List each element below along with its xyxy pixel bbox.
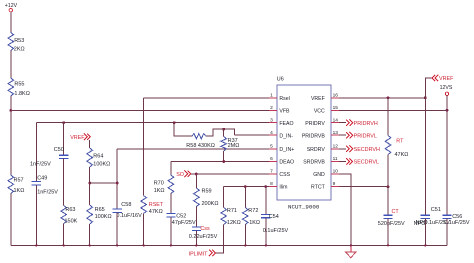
svg-text:CSS: CSS [279,172,290,178]
wire [143,98,145,196]
svg-text:7: 7 [270,169,273,175]
resistor R70 [168,175,174,194]
svg-text:VCC: VCC [314,109,325,115]
wire to IPLIMIT [215,225,223,253]
capacitor C54 [261,213,270,215]
svg-text:SRDRV: SRDRV [307,147,326,153]
wire [35,185,37,245]
wire pin10 GND [339,174,351,245]
svg-text:VREF: VREF [439,76,454,82]
svg-text:R58 430KΩ: R58 430KΩ [186,143,215,149]
svg-text:12: 12 [333,143,339,149]
node [62,121,65,124]
capacitor CT [383,214,392,216]
pin 9 RTCT [331,186,339,188]
svg-text:100KΩ: 100KΩ [93,162,110,168]
wire [170,162,172,176]
svg-text:5: 5 [270,143,273,149]
svg-text:0.1uF/25V: 0.1uF/25V [263,228,289,234]
wire pin8 Ilim [224,186,270,188]
svg-text:0.1uF/25V: 0.1uF/25V [444,220,470,226]
node [35,244,37,246]
wire [10,12,12,33]
wire pin7 CSS [191,173,269,175]
svg-text:0.1uF/16V: 0.1uF/16V [116,213,142,219]
net PRIDRVL [339,134,346,136]
node [387,96,390,99]
svg-text:VFB: VFB [279,109,290,115]
wire [195,230,197,245]
svg-text:9: 9 [333,181,336,187]
node [387,185,390,188]
svg-text:100KΩ: 100KΩ [95,214,112,220]
wire [244,187,246,208]
pin 15 VCC [331,109,339,111]
wire [10,51,12,79]
pin 2 VFB [269,109,277,111]
svg-text:R59: R59 [202,189,212,195]
node [446,109,449,112]
capacitor C56 [442,214,451,216]
svg-text:2MΩ: 2MΩ [228,143,240,149]
node [264,185,267,188]
svg-text:PRIDRV: PRIDRV [305,121,325,127]
wire pin1 Rsel [144,97,270,99]
node [89,244,91,246]
wire [143,214,145,246]
svg-text:1.8KΩ: 1.8KΩ [14,91,29,97]
svg-text:2KΩ: 2KΩ [14,46,25,52]
wire [195,207,197,228]
wire [170,194,172,214]
wire pin3 FEAO [36,122,269,124]
resistor R71 [221,208,227,225]
pin 13 PRIDRVB [331,134,339,136]
pin 7 CSS [269,173,277,175]
wire [89,167,91,205]
node [265,244,267,246]
wire [35,123,37,182]
pin 8 Ilim [269,186,277,188]
wire pin6 DEAO [171,161,269,163]
wire divider tap [90,182,118,184]
capacitor C52 [166,213,175,215]
wire [223,187,225,208]
wire [116,212,118,245]
wire [446,219,448,246]
svg-text:16: 16 [333,92,339,98]
svg-text:R53: R53 [14,38,24,44]
svg-text:RSET: RSET [149,202,164,208]
svg-text:47KΩ: 47KΩ [395,152,409,158]
svg-text:Rsel: Rsel [279,96,289,102]
wire [265,187,267,215]
node [222,160,225,163]
svg-text:VREF: VREF [311,96,325,102]
svg-text:Ilim: Ilim [279,185,287,191]
resistor R55 [8,78,14,96]
svg-text:2: 2 [270,105,273,111]
node [195,244,197,246]
svg-text:12KΩ: 12KΩ [227,220,241,226]
svg-text:C58: C58 [121,202,131,208]
resistor R57 [8,175,14,194]
node [116,182,119,185]
svg-text:C52: C52 [176,214,186,220]
pin 12 SRDRV [331,148,339,150]
wire [63,224,65,246]
svg-text:1nF/25V: 1nF/25V [30,162,51,168]
wire [387,155,389,187]
resistor R65 [87,205,93,224]
svg-text:15: 15 [333,105,339,111]
svg-text:R72: R72 [248,208,258,214]
net VREF flag right [432,75,438,81]
svg-text:NCUT_9000: NCUT_9000 [288,203,320,210]
svg-text:R65: R65 [95,207,105,213]
svg-text:R57: R57 [14,178,24,184]
node [195,173,198,176]
capacitor Css [192,226,201,228]
svg-text:11: 11 [333,156,338,162]
svg-text:1nF/25V: 1nF/25V [37,190,58,196]
capacitor C51 [421,214,430,216]
svg-text:1KΩ: 1KΩ [154,188,165,194]
svg-text:R70: R70 [154,181,164,187]
wire [170,217,172,245]
svg-text:D_IN-: D_IN- [279,133,293,139]
wire [63,123,65,156]
net SECDRVH [339,148,346,150]
wire [89,224,91,245]
wire ground bus [11,244,447,246]
resistor R58 [192,134,206,139]
svg-text:R63: R63 [65,207,75,213]
wire pin2 VFB [11,109,269,111]
svg-text:SECDRVL: SECDRVL [354,160,379,166]
svg-text:14: 14 [333,117,339,123]
node [244,185,247,188]
svg-text:3: 3 [270,117,273,123]
svg-text:RT: RT [396,139,404,145]
wire [223,151,225,162]
wire pin16 VREF [339,97,425,99]
svg-text:47pF/25V: 47pF/25V [172,220,196,226]
resistor RT [385,136,391,155]
svg-text:4: 4 [270,130,273,136]
svg-text:C49: C49 [37,175,47,181]
pin 11 SRDRVB [331,161,339,163]
svg-text:VREF: VREF [70,135,85,141]
svg-text:200KΩ: 200KΩ [202,201,219,207]
capacitor C49 [32,181,41,183]
svg-text:R71: R71 [227,208,237,214]
pin 16 VREF [331,97,339,99]
wire pin9 RTCT [339,186,388,188]
pin 3 FEAO [269,122,277,124]
pin 4 D_IN- [269,134,277,136]
resistor R37 [221,137,227,152]
svg-text:RTCT: RTCT [311,185,326,191]
op-amp U6 NCUT_9000 body [277,85,331,200]
svg-text:DEAO: DEAO [279,160,294,166]
wire [387,187,389,216]
wire [10,96,12,175]
wire pin15 VCC [339,109,447,111]
wire [424,219,426,246]
wire [10,194,12,246]
node [63,244,65,246]
svg-text:R55: R55 [14,82,24,88]
svg-text:GND: GND [313,172,325,178]
wire [89,140,91,148]
svg-text:SO: SO [176,172,184,178]
svg-text:C50: C50 [54,147,64,153]
wire [446,96,448,216]
svg-text:C51: C51 [431,207,441,213]
wire [265,218,267,246]
svg-text:8: 8 [270,181,273,187]
svg-text:13: 13 [333,130,339,136]
net SECDRVL [339,161,346,163]
svg-text:D_IN+: D_IN+ [279,147,294,153]
resistor R63 [61,206,67,224]
svg-text:SECDRVH: SECDRVH [354,147,380,153]
svg-text:IPLIMIT: IPLIMIT [189,252,209,258]
node [424,96,427,99]
resistor R53 [8,33,14,51]
svg-text:150K: 150K [65,218,78,224]
node [88,182,91,185]
wire [116,149,118,209]
wire [195,174,197,188]
svg-text:520pF/25V: 520pF/25V [378,221,405,227]
svg-text:6: 6 [270,156,273,162]
node [142,244,144,246]
wire pin4 D_IN- [235,134,270,136]
pin 5 D_IN+ [269,148,277,150]
resistor RSET [141,196,147,214]
ground [350,245,352,252]
wire [206,129,235,136]
pin 14 PRIDRV [331,122,339,124]
wire pin5 D_IN+ [117,148,269,150]
node [244,244,246,246]
node [116,244,118,246]
wire [244,225,246,246]
pin 1 Rsel [269,97,277,99]
wire [223,129,225,136]
svg-text:1KΩ: 1KΩ [14,188,25,194]
wire [387,98,389,136]
wire [387,219,389,246]
resistor R59 [194,188,200,207]
svg-text:U6: U6 [277,77,284,83]
svg-text:12VS: 12VS [440,85,453,91]
pin 10 GND [331,173,339,175]
resistor R72 [243,208,249,225]
node [222,128,225,131]
svg-text:SRDRVB: SRDRVB [303,160,325,166]
svg-text:C56: C56 [452,214,462,220]
net PRIDRVH [339,122,346,124]
resistor R64 [87,148,93,167]
node [350,244,352,246]
wire [425,78,432,98]
node VFB junction [9,109,12,112]
svg-text:FEAO: FEAO [279,121,293,127]
node [387,244,389,246]
svg-text:1KΩ: 1KΩ [249,220,260,226]
svg-text:C54: C54 [269,214,279,220]
svg-text:PRIDRVL: PRIDRVL [354,133,377,139]
svg-text:R64: R64 [93,154,103,160]
svg-text:PRIDRVB: PRIDRVB [302,133,326,139]
capacitor C58 [113,208,122,210]
svg-text:1: 1 [270,92,273,98]
node [424,244,426,246]
node [173,121,176,124]
capacitor C50 [59,154,68,156]
svg-text:47KΩ: 47KΩ [149,209,163,215]
svg-text:Css: Css [200,226,210,232]
svg-text:10: 10 [333,169,339,175]
node [170,244,172,246]
pin 6 DEAO [269,161,277,163]
svg-text:PRIDRVH: PRIDRVH [354,121,378,127]
wire [174,123,192,137]
svg-text:0.22uF/25V: 0.22uF/25V [189,234,218,240]
wire [424,98,426,215]
wire [63,159,65,206]
svg-text:CT: CT [392,209,400,215]
